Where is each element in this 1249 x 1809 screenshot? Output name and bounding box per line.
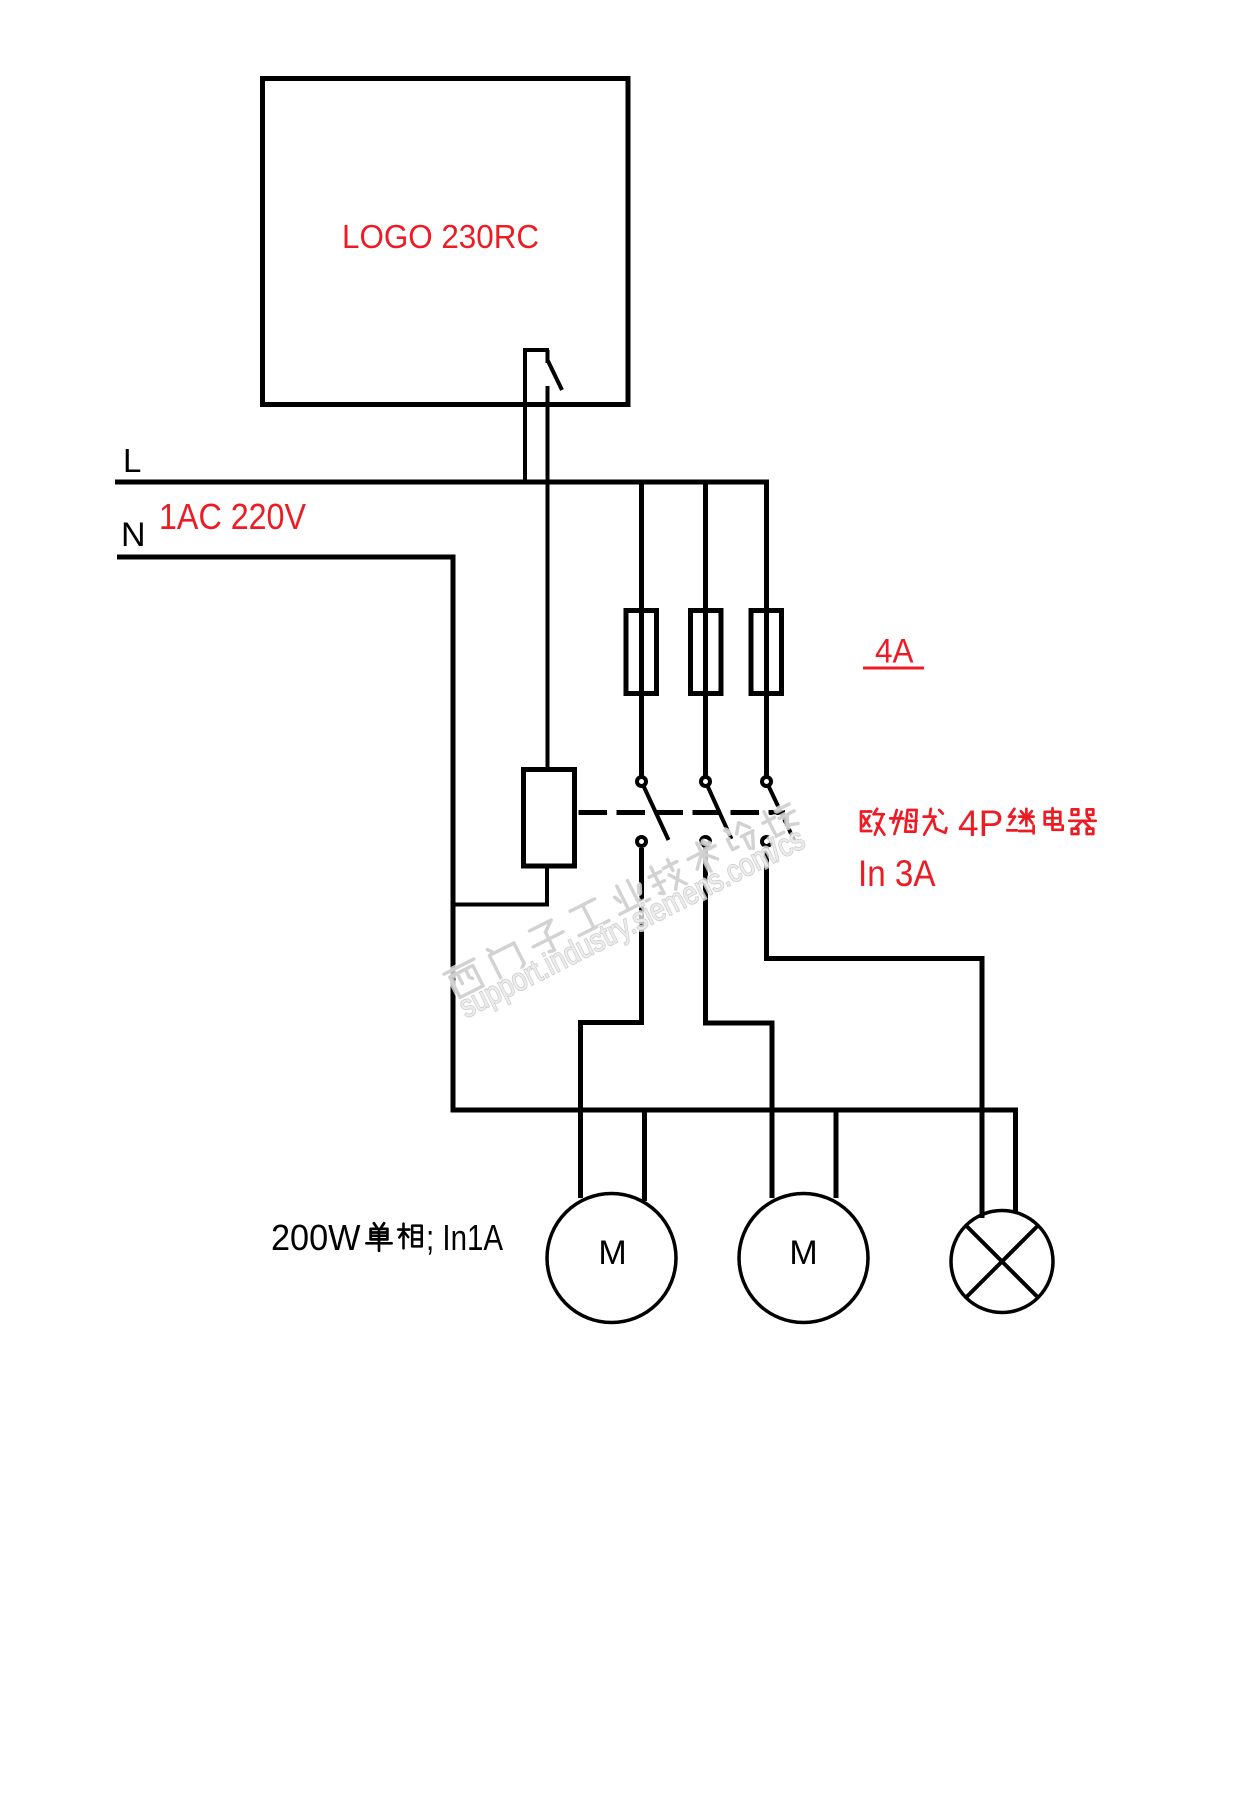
relay label CJK ji dian qi (1007, 809, 1033, 834)
svg-text:1AC 220V: 1AC 220V (159, 496, 306, 537)
wire contact1 to motor M1 (581, 848, 642, 1198)
fuse branch 1 wire (639, 481, 644, 776)
fuse F3 (751, 611, 782, 694)
watermark CJK line gray strokes (443, 797, 803, 1001)
svg-text:N: N (121, 516, 146, 554)
relay label CJK ou mu long (861, 808, 1096, 834)
svg-text:support.industry.siemens.com/c: support.industry.siemens.com/cs (453, 820, 810, 1024)
wire N stub to motor M2 (834, 1110, 839, 1198)
svg-text:200W: 200W (271, 1217, 361, 1258)
lamp circle (951, 1211, 1053, 1313)
4A underline (863, 667, 924, 670)
LOGO output switch contact (523, 350, 562, 769)
relay contact S3 (762, 777, 795, 846)
wire N line (117, 557, 1018, 1110)
svg-text:M: M (789, 1234, 817, 1272)
PLC box U1 LOGO 230RC (263, 79, 629, 405)
fuse F2 (691, 611, 722, 694)
fuse branch 2 wire (703, 481, 708, 776)
relay contact S1 (637, 777, 669, 846)
wire N drop to lamp right terminal (1013, 1108, 1018, 1213)
wire contact3 to lamp (767, 848, 983, 1218)
svg-text:; In1A: ; In1A (426, 1217, 503, 1258)
relay actuator dashed link (579, 810, 786, 815)
relay contact S2 (701, 777, 732, 846)
svg-text:4A: 4A (875, 633, 914, 671)
motor M2 circle (739, 1194, 868, 1323)
wire L line (115, 480, 769, 485)
watermark CJK line white underlay (443, 797, 803, 1001)
svg-text:M: M (598, 1234, 626, 1272)
wire contact2 to motor M2 (706, 848, 773, 1198)
lamp X (966, 1226, 1038, 1298)
load label CJK dan xiang (366, 1223, 421, 1251)
svg-text:L: L (123, 442, 141, 479)
wire N stub to motor M1 (642, 1110, 647, 1201)
svg-text:In 3A: In 3A (858, 853, 936, 894)
motor M1 circle (547, 1194, 676, 1323)
fuse F1 (626, 611, 657, 694)
svg-text:4P: 4P (958, 803, 1003, 844)
svg-text:LOGO 230RC: LOGO 230RC (342, 218, 539, 255)
fuse branch 3 wire (764, 481, 769, 776)
relay coil K1 (524, 770, 575, 867)
coil bottom wire to N (453, 866, 547, 905)
